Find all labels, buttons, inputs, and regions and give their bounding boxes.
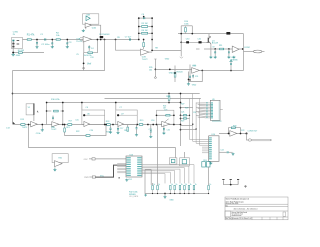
- junction s1 mr: [62, 110, 64, 112]
- svg-text:R20: R20: [124, 130, 127, 132]
- junction bank 1: [157, 193, 158, 194]
- IC U10 body: [209, 136, 219, 162]
- svg-text:BC549: BC549: [212, 43, 219, 45]
- junction U2B out: [151, 50, 153, 52]
- wire RV1 top: [175, 148, 177, 158]
- capacitor C3: [66, 43, 68, 44]
- junction s1 out: [62, 124, 64, 126]
- wire R14 b: [168, 100, 170, 102]
- svg-text:GND: GND: [169, 200, 174, 202]
- svg-text:R3 1M: R3 1M: [18, 50, 24, 52]
- resistor R30: [231, 127, 235, 129]
- wire Q1 collector: [209, 34, 211, 37]
- junction U1A out: [97, 39, 99, 41]
- wire cap trio rail: [223, 184, 238, 186]
- wire trunk to U10 bends: [190, 140, 203, 146]
- ground U13: [125, 179, 128, 182]
- wire shunt a2: [117, 130, 119, 131]
- tick mid rail top: [154, 58, 156, 60]
- wire bank rail: [145, 193, 209, 195]
- wire Q1 emitter: [210, 44, 212, 46]
- wire bank 1: [157, 190, 159, 194]
- wire input sleeve: [13, 48, 44, 53]
- wire s1 rung a: [47, 110, 52, 112]
- junction lfo tap: [28, 124, 30, 126]
- wire loop top: [181, 25, 192, 27]
- svg-text:1k: 1k: [153, 184, 155, 186]
- svg-text:TL072: TL072: [142, 59, 149, 61]
- connector J2: [254, 50, 262, 53]
- connector J1 inner dashes: [17, 41, 20, 45]
- wire C3 top: [66, 40, 68, 43]
- resistor R6: [142, 32, 148, 34]
- capacitor C27: [237, 180, 239, 184]
- capacitor C32: [163, 129, 165, 130]
- wire C12 a: [230, 65, 232, 71]
- title block id box: [225, 211, 231, 217]
- wire bus line 6: [142, 172, 171, 183]
- wire bank 0: [152, 190, 154, 194]
- resistor bank R38: [179, 185, 181, 189]
- resistor R21: [64, 128, 66, 132]
- op-amp U5A: [31, 121, 38, 126]
- junction rail180: [180, 102, 182, 104]
- box phase U6: [82, 110, 105, 125]
- wire C1a top: [36, 40, 38, 43]
- capacitor C17b: [110, 128, 112, 129]
- wire U12 gnd: [54, 166, 56, 169]
- IC U10 left pins: [202, 140, 209, 153]
- wire rail 180: [180, 94, 182, 147]
- wire shunt c2: [136, 129, 138, 134]
- junction s3 c: [152, 124, 154, 126]
- svg-text:TL072: TL072: [22, 127, 29, 129]
- connector J1 outline: [12, 38, 23, 49]
- resistor bank R42: [208, 185, 210, 189]
- trimmer RV1 center: [171, 159, 175, 162]
- junction U4 out: [201, 70, 203, 72]
- resistor bank R36: [170, 185, 172, 189]
- resistor R7: [143, 43, 145, 47]
- wire U10 right: [219, 151, 227, 153]
- junction rail mid: [180, 41, 182, 43]
- resistor bank R39: [184, 185, 186, 189]
- junction ladder R: [151, 39, 153, 41]
- capacitor C18: [136, 128, 138, 129]
- svg-text:RV3: RV3: [203, 160, 206, 162]
- capacitor C8 polarized: [226, 32, 230, 35]
- wire ladder left rail: [138, 18, 140, 40]
- wire bank top a: [152, 183, 154, 185]
- wire U6 rung: [84, 114, 105, 116]
- wire R7 top: [143, 40, 145, 43]
- junction rail180: [180, 114, 182, 116]
- svg-text:R6 1M: R6 1M: [142, 30, 148, 32]
- svg-text:R5 1M: R5 1M: [142, 23, 148, 25]
- title block frame: [225, 197, 288, 220]
- svg-text:R27: R27: [181, 104, 184, 106]
- svg-text:1k: 1k: [185, 184, 187, 186]
- wire C4 b: [88, 48, 90, 51]
- ground C10: [227, 56, 230, 59]
- IC U9 pin comb: [211, 101, 213, 104]
- op-amp U12: [55, 161, 63, 167]
- wire ladder right rail: [151, 18, 153, 51]
- svg-text:100k: 100k: [184, 24, 188, 26]
- svg-text:1k: 1k: [171, 184, 173, 186]
- svg-text:C7: C7: [119, 107, 121, 109]
- capacitor C4: [88, 47, 90, 48]
- svg-text:C33: C33: [90, 57, 93, 59]
- wire loop right: [191, 26, 193, 34]
- junction mix R: [105, 124, 107, 126]
- junction U4 in: [169, 69, 171, 71]
- wire R7 bottom: [143, 47, 145, 49]
- capacitor C26: [230, 180, 232, 184]
- wire bus line 3: [142, 168, 185, 184]
- ground U3: [232, 56, 235, 59]
- connector J1 pads: [12, 40, 14, 42]
- wire bank 7: [188, 190, 190, 194]
- wire rung3 b: [148, 32, 152, 34]
- junction R14 top: [168, 93, 170, 95]
- ground input: [11, 53, 15, 56]
- capacitor C25: [222, 180, 224, 184]
- wire J1 column: [12, 41, 14, 47]
- junction ladder R: [151, 17, 153, 19]
- op-amp U1A: [83, 36, 91, 42]
- svg-text:C20: C20: [90, 130, 93, 132]
- wire C10 b: [228, 53, 230, 56]
- svg-text:R21: R21: [66, 127, 69, 129]
- ground rail b: [144, 194, 147, 196]
- wire Q1 to gnd: [210, 45, 212, 56]
- resistor R4: [88, 52, 93, 54]
- junction rail180: [180, 124, 182, 126]
- wire out stage: [204, 48, 244, 50]
- ground row2 b: [116, 131, 119, 134]
- wire stage1 right: [62, 103, 64, 125]
- title block texts: [225, 197, 257, 220]
- trimmer RV2 center: [182, 160, 186, 164]
- wire R13 bottom: [174, 77, 176, 82]
- resistor R28: [183, 115, 186, 116]
- wire shunt a: [117, 125, 119, 129]
- svg-text:VCC: VCC: [100, 175, 105, 177]
- junction cap tap: [230, 70, 232, 72]
- junction U7 LED: [117, 114, 119, 116]
- svg-text:R29: R29: [181, 121, 184, 123]
- junction bank 3: [170, 193, 171, 194]
- svg-text:R30: R30: [233, 125, 236, 127]
- wire rail gnd: [164, 194, 166, 196]
- svg-text:C28: C28: [193, 112, 196, 114]
- wire U4 out: [200, 70, 244, 72]
- junction ladder L: [138, 26, 140, 28]
- LDR V1 dark bar: [33, 103, 35, 115]
- IC U13 left pin comb: [126, 157, 130, 158]
- capacitor C1a: [36, 43, 38, 44]
- junction sum br: [173, 124, 175, 126]
- wire C2 top: [51, 40, 53, 43]
- wire bank 9: [208, 190, 210, 194]
- svg-text:C30: C30: [186, 39, 189, 41]
- wire s1 rung b: [61, 110, 63, 112]
- wire bank 8: [193, 190, 195, 194]
- svg-text:1k: 1k: [158, 184, 160, 186]
- capacitor C9: [214, 52, 216, 53]
- wire shunt a0b: [110, 130, 112, 131]
- svg-text:OSC: OSC: [84, 159, 89, 161]
- junction C2: [51, 39, 53, 41]
- capacitor C12: [230, 64, 232, 65]
- wire right rail: [180, 26, 182, 51]
- ground C12 flipped: [229, 60, 232, 62]
- svg-text:C22: C22: [220, 149, 223, 151]
- box vactrol V1: [26, 104, 34, 115]
- wire fan to U9: [196, 103, 205, 118]
- op-amp U6: [84, 121, 90, 126]
- svg-text:Some Pedal Audio Designs Ltd: Some Pedal Audio Designs Ltd: [226, 197, 249, 200]
- wire bus C: [47, 102, 180, 104]
- resistor R19: [139, 124, 143, 126]
- svg-text:C21: C21: [181, 112, 184, 114]
- svg-text:R28: R28: [185, 108, 188, 110]
- svg-text:LFO_RATE: LFO_RATE: [129, 195, 139, 198]
- svg-text:R19: R19: [140, 120, 143, 122]
- wire rung2 b: [148, 26, 152, 28]
- wire shunt b: [127, 125, 129, 128]
- resistor R29: [183, 118, 186, 119]
- op-amp U4: [192, 68, 200, 74]
- capacitor C14: [52, 117, 54, 118]
- junction bank 4: [174, 193, 175, 194]
- resistor bank R34: [157, 185, 159, 189]
- wire R13 top: [174, 66, 176, 73]
- resistor R1: [27, 39, 31, 40]
- junction ladder R: [151, 26, 153, 28]
- junction s2 b: [112, 124, 114, 126]
- junction bias R: [191, 33, 193, 35]
- junction D1: [100, 39, 102, 41]
- junction sum bl: [156, 124, 158, 126]
- svg-text:Rev: Rev: [226, 205, 229, 207]
- junction ladder R: [151, 32, 153, 34]
- wire rung 114: [181, 115, 190, 117]
- wire out drop: [247, 134, 249, 141]
- ground U4: [187, 83, 190, 86]
- svg-text:C29: C29: [164, 110, 167, 112]
- ground C2: [51, 45, 54, 48]
- capacitor C22: [227, 151, 228, 153]
- capacitor C17: [117, 129, 119, 130]
- box trimmer RV1: [169, 158, 177, 164]
- resistor R20: [127, 127, 129, 131]
- diode D1: [100, 36, 104, 38]
- svg-text:Reissue Vibe 2008: Reissue Vibe 2008: [226, 203, 239, 205]
- node ladder right: [151, 39, 153, 41]
- IC U9 shadow: [212, 121, 222, 122]
- svg-text:GND: GND: [16, 55, 21, 57]
- wire U7 rung: [118, 114, 137, 116]
- junction bank 7: [188, 193, 189, 194]
- op-amp U2B: [141, 49, 150, 55]
- svg-text:C6: C6: [86, 107, 88, 109]
- wire bank 3: [169, 190, 171, 194]
- pad mid rail: [154, 77, 156, 79]
- wire U7 bus stub: [115, 103, 117, 111]
- capacitor C19: [150, 131, 152, 132]
- svg-text:1k: 1k: [195, 184, 197, 186]
- wire aux a: [145, 169, 151, 171]
- junction bank 8: [193, 193, 194, 194]
- wire shunt d2: [150, 132, 152, 135]
- junction out c: [246, 133, 248, 135]
- junction C34: [189, 79, 191, 81]
- svg-text:Vref: Vref: [87, 63, 91, 66]
- junction row2 feed: [104, 39, 106, 41]
- junction s2 out: [104, 124, 106, 126]
- wire rung2 a: [139, 26, 141, 28]
- svg-text:C17: C17: [120, 128, 123, 130]
- junction C1a: [36, 39, 38, 41]
- junction rail180: [180, 107, 182, 109]
- junction left rail: [12, 93, 14, 95]
- svg-text:C2 100n: C2 100n: [41, 44, 50, 46]
- ground C9: [214, 56, 217, 59]
- junction ladder L: [138, 32, 140, 34]
- wire R10 stubs: [184, 26, 186, 34]
- box trimmer RV2: [180, 158, 190, 166]
- svg-text:R17: R17: [69, 121, 72, 123]
- connector P2: [92, 176, 95, 178]
- svg-text:GND: GND: [192, 84, 197, 86]
- junction mix L: [64, 124, 66, 126]
- wire U2B out a: [149, 51, 152, 53]
- wire lower branch: [116, 40, 141, 51]
- junction U3 out: [242, 48, 244, 50]
- wire C1a bottom: [36, 44, 38, 46]
- junction s3 b: [147, 124, 149, 126]
- IC U9 left pins: [206, 103, 211, 118]
- wire lfo bus: [29, 125, 176, 148]
- svg-text:U2A: U2A: [92, 27, 97, 30]
- wire rung 125: [181, 125, 193, 127]
- wire fb gnd: [188, 82, 190, 83]
- wire row2 main: [13, 124, 181, 126]
- junction sum l: [156, 114, 158, 116]
- junction rail180: [180, 93, 182, 95]
- capacitor C2: [51, 43, 53, 44]
- LED V1 arrow: [37, 110, 39, 112]
- svg-text:C15: C15: [75, 119, 78, 121]
- junction bank 9: [208, 193, 209, 194]
- wire gnd stub r2: [41, 125, 43, 129]
- resistor R22b: [86, 135, 90, 137]
- junction U13 gnd: [119, 177, 120, 178]
- wire rung3 a: [139, 32, 141, 34]
- ground row2 a: [41, 129, 44, 132]
- resistor bank R33: [152, 185, 154, 189]
- wire U4 feedback: [189, 71, 203, 82]
- op-amp U1B small: [86, 16, 90, 21]
- wire C2 bottom: [51, 44, 53, 45]
- svg-text:V1: V1: [28, 107, 30, 109]
- svg-text:PWR: PWR: [84, 177, 89, 179]
- wire C9 b: [214, 53, 216, 56]
- wire sum rung b: [170, 114, 174, 116]
- op-amp U2A: [85, 23, 92, 28]
- wire U1A feedback: [84, 40, 98, 53]
- capacitor C6: [144, 17, 145, 19]
- ground row2 a0: [109, 131, 112, 134]
- svg-text:R31: R31: [59, 157, 62, 159]
- wire aux c: [150, 170, 152, 185]
- svg-text:C9: C9: [212, 46, 214, 48]
- resistor R10: [185, 28, 187, 32]
- wire bias line: [178, 33, 244, 35]
- wire trunk bundle: [190, 94, 200, 146]
- wire base y42: [181, 41, 206, 43]
- ground Q1: [209, 56, 212, 59]
- wire bank 4: [174, 190, 176, 194]
- wire bus line 2: [142, 166, 189, 183]
- junction ladder L: [138, 17, 140, 19]
- wire sum rung a: [157, 114, 166, 116]
- junction C9: [214, 48, 216, 50]
- resistor R3: [18, 52, 22, 54]
- wire bus line 4: [142, 169, 180, 183]
- resistor R13: [174, 73, 176, 78]
- junction bank 5: [179, 193, 180, 194]
- junction bank 0: [152, 193, 153, 194]
- wire input chain: [23, 39, 139, 41]
- wire C34 b: [189, 77, 191, 80]
- ground row2 c: [135, 134, 138, 137]
- wire to output: [244, 51, 254, 53]
- box summing: [157, 110, 174, 124]
- wire sum gnd stub: [163, 125, 165, 132]
- resistor bank R37: [174, 185, 176, 189]
- wire rung 118: [181, 118, 190, 120]
- wire bus A: [13, 93, 200, 95]
- junction ladder L: [138, 39, 140, 41]
- svg-text:C24: C24: [128, 179, 131, 181]
- wire shunt a0: [110, 125, 112, 129]
- wire mix branch: [65, 125, 106, 136]
- wire mid rail: [154, 59, 156, 77]
- svg-text:CON3 OUT: CON3 OUT: [248, 131, 259, 133]
- ground U2A: [82, 29, 85, 32]
- resistor R16: [54, 110, 59, 112]
- junction C6 top: [143, 16, 145, 18]
- wire output mix: [219, 133, 247, 135]
- junction R7: [143, 39, 145, 41]
- wire rung 129: [181, 129, 197, 131]
- box LFO: [52, 154, 68, 163]
- svg-text:10k: 10k: [149, 69, 152, 71]
- svg-text:CON2: CON2: [244, 47, 251, 49]
- wire C12 b: [230, 61, 232, 63]
- ground U12: [53, 168, 56, 171]
- wire bus line 7: [142, 174, 165, 184]
- ground C22: [231, 153, 234, 156]
- ground summing: [162, 132, 165, 135]
- wire U4 input: [155, 68, 191, 70]
- junction s3 out: [136, 124, 138, 126]
- wire feedback right: [243, 34, 245, 71]
- IC U9 right band: [218, 101, 219, 119]
